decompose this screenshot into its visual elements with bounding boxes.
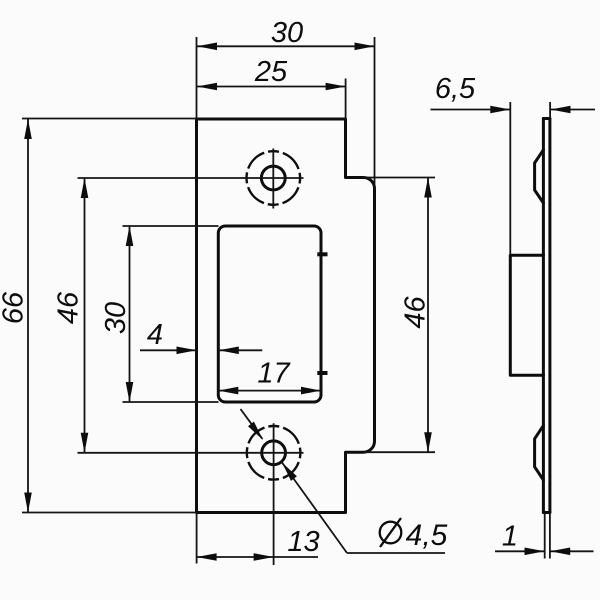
svg-text:25: 25 [254,56,288,88]
dimension 4 cutout offset [140,319,262,354]
dimension 30 overall width [197,17,375,50]
dimension 6,5 pocket depth [431,73,596,113]
extension line tab bottom right [363,451,435,453]
screw hole bottom [262,441,286,465]
center mark top hole [78,149,304,209]
center mark bottom hole [78,423,304,565]
plate outline [197,119,375,513]
side view dimple bottom [535,426,544,480]
extension line cutout bottom left [123,401,219,403]
svg-text:1: 1 [502,521,518,553]
dimension 46 tab height right [400,178,432,453]
countersink dashed circle top [246,151,300,205]
dimension 66 overall height [0,119,32,513]
side view latch box [510,255,543,375]
side view plate profile [543,119,550,513]
dimension 1 thickness [495,521,594,556]
svg-text:6,5: 6,5 [435,73,476,105]
extension line tab right top [374,37,376,190]
latch cutout [218,226,321,402]
extension line cutout top left [123,225,219,227]
extension line tab top right [363,177,435,179]
extension line top edge left [22,118,197,120]
extension line side left [509,102,511,255]
extension line bottom edge left [22,512,197,514]
side view dimple top [535,150,544,203]
dimension 25 plate width [197,56,346,90]
svg-text:4: 4 [147,319,163,351]
svg-text:66: 66 [0,291,30,324]
svg-text:17: 17 [257,358,291,390]
dimension 46 hole spacing left [53,178,89,453]
svg-text:4,5: 4,5 [406,519,448,552]
extension line left edge top [196,37,198,119]
cutout lance nub top [317,252,327,256]
dimension 17 cutout width [218,358,321,395]
svg-text:30: 30 [100,302,132,334]
dimension 13 hole axis offset [197,526,320,561]
svg-text:30: 30 [271,17,303,49]
screw hole top [261,166,285,190]
extension line side right [549,102,551,119]
extension line bottom left for 13 [196,513,198,564]
countersink dashed circle bottom [247,426,301,480]
svg-text:46: 46 [400,296,432,329]
extension line plate right top [345,79,347,119]
cutout lance nub bottom [317,371,327,375]
svg-text:13: 13 [287,526,319,558]
svg-text:46: 46 [53,291,85,324]
extension lines thickness [545,513,550,559]
dimension 30 cutout height [100,226,133,402]
leader diameter 4,5 [241,409,448,553]
